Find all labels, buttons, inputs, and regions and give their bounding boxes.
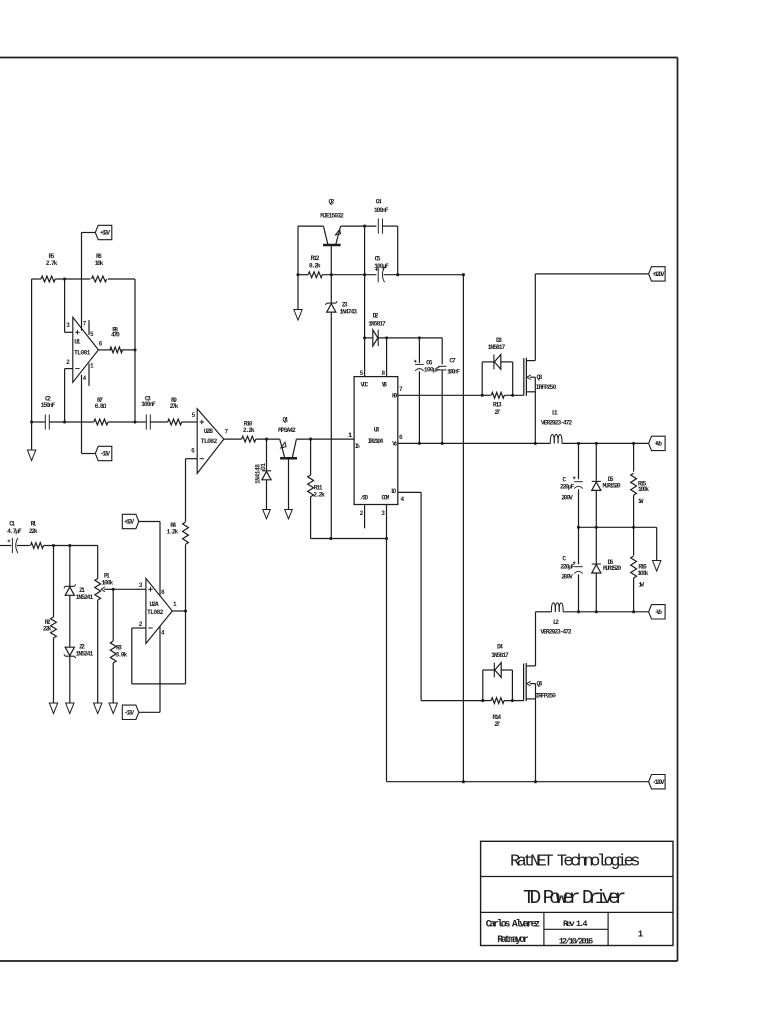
svg-text:200V: 200V — [561, 573, 573, 580]
svg-text:R3: R3 — [116, 645, 122, 652]
svg-text:MUR1520: MUR1520 — [603, 565, 621, 572]
svg-text:R14: R14 — [492, 714, 501, 721]
svg-text:100k: 100k — [101, 579, 113, 586]
svg-text:100nF: 100nF — [374, 207, 389, 214]
svg-text:R13: R13 — [493, 401, 502, 408]
svg-text:Ratmayor: Ratmayor — [497, 934, 529, 945]
svg-text:-12V: -12V — [124, 710, 134, 717]
svg-text:HO: HO — [392, 393, 398, 400]
svg-text:TD Power Driver: TD Power Driver — [523, 887, 626, 909]
svg-text:TL082: TL082 — [201, 438, 218, 445]
svg-text:C: C — [562, 476, 566, 483]
svg-text:Q3: Q3 — [537, 374, 543, 381]
svg-text:1N5241: 1N5241 — [76, 651, 94, 658]
svg-text:C: C — [562, 555, 566, 562]
svg-text:Q1: Q1 — [283, 417, 289, 424]
svg-text:In: In — [355, 443, 360, 450]
svg-text:U1: U1 — [74, 339, 80, 346]
svg-text:12/10/2016: 12/10/2016 — [559, 936, 594, 946]
svg-text:VER2923-472: VER2923-472 — [540, 629, 572, 636]
svg-text:5: 5 — [90, 331, 94, 338]
svg-text:IRFP250: IRFP250 — [535, 693, 556, 700]
svg-text:2: 2 — [66, 359, 70, 366]
svg-text:27k: 27k — [170, 403, 179, 410]
svg-text:1N5817: 1N5817 — [491, 652, 509, 659]
svg-text:220µF: 220µF — [560, 563, 575, 570]
svg-text:U3: U3 — [374, 427, 380, 434]
svg-text:C7: C7 — [449, 358, 456, 365]
svg-text:1.2k: 1.2k — [166, 528, 178, 535]
svg-text:MPSA42: MPSA42 — [278, 427, 296, 434]
svg-text:22k: 22k — [43, 626, 52, 633]
svg-text:100µF: 100µF — [374, 263, 389, 270]
svg-text:C1: C1 — [9, 520, 15, 527]
svg-text:Z2: Z2 — [79, 644, 85, 651]
svg-text:3.9k: 3.9k — [115, 652, 127, 659]
svg-text:Q4: Q4 — [537, 680, 543, 687]
svg-text:TL081: TL081 — [74, 350, 91, 357]
svg-text:D3: D3 — [496, 337, 502, 344]
svg-text:VB: VB — [382, 381, 388, 388]
svg-text:1N5817: 1N5817 — [488, 344, 506, 351]
svg-text:C4: C4 — [376, 198, 382, 205]
svg-text:U2B: U2B — [204, 428, 213, 435]
svg-text:100nF: 100nF — [447, 369, 460, 376]
svg-text:3: 3 — [66, 322, 70, 329]
svg-text:4: 4 — [161, 630, 165, 637]
svg-text:100k: 100k — [637, 570, 648, 577]
svg-text:1N4743: 1N4743 — [339, 309, 357, 316]
svg-text:-12V: -12V — [100, 451, 110, 458]
svg-text:4.7µF: 4.7µF — [7, 528, 22, 535]
svg-text:Carlos Alvarez: Carlos Alvarez — [486, 918, 541, 929]
svg-text:U2A: U2A — [149, 601, 158, 608]
svg-text:1: 1 — [638, 930, 644, 940]
svg-text:C5: C5 — [375, 256, 381, 263]
svg-text:L2: L2 — [553, 619, 559, 626]
svg-text:2: 2 — [139, 621, 143, 628]
svg-text:3: 3 — [139, 582, 143, 589]
svg-text:TL082: TL082 — [147, 609, 164, 616]
svg-text:1W: 1W — [638, 498, 644, 505]
svg-text:3: 3 — [381, 510, 385, 517]
svg-text:D4: D4 — [497, 643, 503, 650]
svg-text:-Vb: -Vb — [655, 609, 663, 616]
svg-text:5: 5 — [192, 412, 196, 419]
svg-text:1N5817: 1N5817 — [368, 321, 386, 328]
svg-text:VER2923-472: VER2923-472 — [541, 420, 573, 427]
svg-text:/SD: /SD — [360, 495, 368, 502]
svg-text:6.8Ω: 6.8Ω — [95, 403, 107, 410]
svg-text:2.7k: 2.7k — [46, 260, 58, 267]
svg-text:+120V: +120V — [652, 271, 664, 278]
svg-text:8: 8 — [161, 589, 165, 596]
svg-text:10k: 10k — [95, 260, 104, 267]
svg-text:22k: 22k — [29, 528, 38, 535]
svg-text:470: 470 — [111, 332, 120, 339]
svg-text:COM: COM — [382, 495, 390, 502]
svg-text:6: 6 — [99, 341, 103, 348]
svg-text:4: 4 — [400, 496, 404, 503]
svg-text:27: 27 — [494, 409, 500, 416]
svg-text:7: 7 — [83, 321, 87, 328]
svg-text:Vs: Vs — [392, 441, 397, 448]
svg-text:L1: L1 — [552, 409, 558, 416]
svg-text:7: 7 — [399, 386, 403, 393]
svg-text:VCC: VCC — [361, 381, 369, 388]
svg-text:1N5241: 1N5241 — [76, 594, 94, 601]
svg-text:R1: R1 — [30, 521, 36, 528]
svg-text:MUR1520: MUR1520 — [603, 483, 621, 490]
svg-text:1N4148: 1N4148 — [254, 464, 261, 484]
svg-text:+12V: +12V — [124, 519, 134, 526]
svg-text:6: 6 — [399, 434, 403, 441]
svg-text:6: 6 — [191, 448, 195, 455]
svg-text:4: 4 — [83, 375, 87, 382]
svg-text:2.2k: 2.2k — [313, 492, 325, 499]
svg-text:100k: 100k — [638, 486, 649, 493]
svg-text:1: 1 — [173, 601, 177, 608]
svg-text:LO: LO — [391, 488, 396, 495]
svg-text:5: 5 — [360, 370, 364, 377]
svg-text:1: 1 — [90, 363, 94, 370]
svg-text:Z1: Z1 — [79, 587, 85, 594]
svg-text:-120V: -120V — [652, 779, 664, 786]
svg-text:R12: R12 — [311, 255, 320, 262]
svg-text:150nF: 150nF — [41, 402, 56, 409]
svg-text:+Vb: +Vb — [655, 441, 663, 448]
svg-text:7: 7 — [224, 428, 228, 435]
svg-text:+12V: +12V — [100, 230, 110, 237]
svg-text:Rev 1.4: Rev 1.4 — [563, 919, 588, 929]
svg-text:2.2k: 2.2k — [243, 427, 255, 434]
svg-text:RatNET Technologies: RatNET Technologies — [510, 853, 641, 872]
svg-text:220µF: 220µF — [560, 483, 575, 490]
svg-text:200V: 200V — [561, 494, 573, 501]
svg-text:2: 2 — [360, 510, 364, 517]
svg-text:1: 1 — [348, 432, 352, 439]
svg-text:Q2: Q2 — [329, 199, 335, 206]
svg-text:1W: 1W — [638, 581, 644, 588]
svg-text:8.2k: 8.2k — [309, 262, 321, 269]
svg-text:100µF: 100µF — [424, 366, 440, 373]
svg-text:100nF: 100nF — [141, 401, 156, 408]
svg-text:27: 27 — [494, 721, 500, 728]
svg-text:IR2104: IR2104 — [368, 438, 384, 445]
svg-text:C6: C6 — [426, 359, 433, 366]
svg-text:8: 8 — [381, 370, 385, 377]
svg-text:MJE15032: MJE15032 — [320, 213, 344, 220]
svg-text:D2: D2 — [373, 313, 379, 320]
svg-text:IRFP250: IRFP250 — [536, 384, 557, 391]
